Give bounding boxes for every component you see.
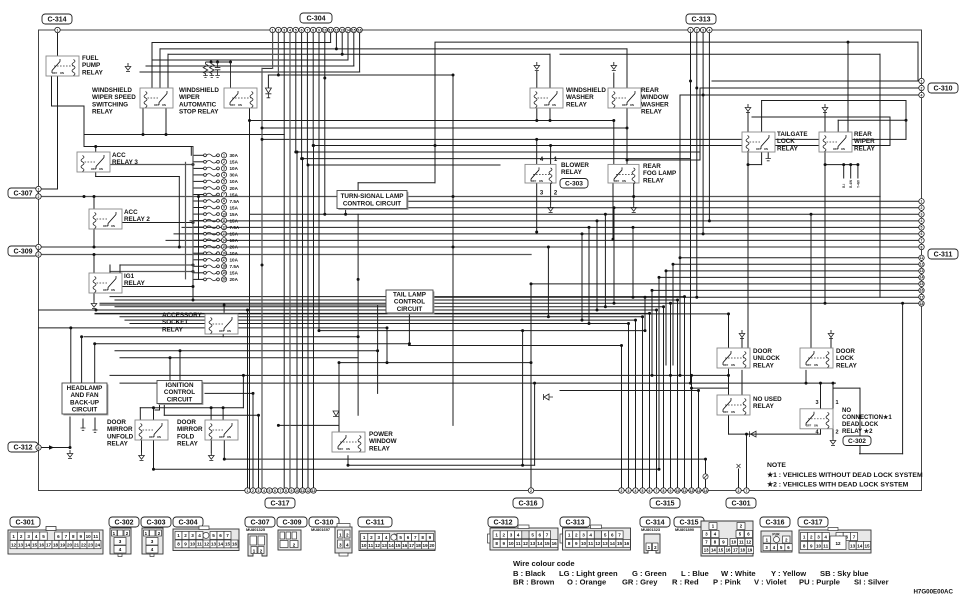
svg-text:1: 1	[921, 79, 923, 83]
svg-text:11: 11	[368, 543, 373, 548]
svg-text:1: 1	[835, 400, 838, 406]
connector table C-302	[110, 528, 131, 557]
tailgate lock relay	[742, 132, 775, 152]
accessory socket relay	[205, 314, 238, 334]
svg-text:1: 1	[272, 28, 274, 32]
svg-text:9: 9	[575, 541, 578, 546]
connector table C-312 label	[488, 517, 518, 527]
connector table C-316 label	[760, 517, 790, 527]
svg-text:6: 6	[649, 489, 651, 493]
svg-text:14: 14	[25, 543, 31, 548]
svg-text:20: 20	[429, 543, 435, 548]
svg-text:20A: 20A	[230, 186, 239, 191]
wire colour code legend	[513, 559, 889, 587]
svg-text:10A: 10A	[230, 179, 239, 184]
svg-text:4: 4	[824, 534, 827, 539]
svg-text:7: 7	[546, 533, 549, 538]
connector C-315 pins	[619, 488, 708, 493]
ground above windshield washer relay	[534, 62, 540, 71]
svg-text:3: 3	[27, 534, 30, 539]
svg-text:2: 2	[252, 489, 254, 493]
acc relay 2	[89, 209, 122, 229]
terminal stub below headlamp box 2	[93, 430, 98, 432]
svg-text:OFF: OFF	[103, 288, 109, 292]
svg-text:C-316: C-316	[765, 520, 784, 527]
diode near stop relay	[265, 88, 271, 98]
svg-text:11: 11	[588, 541, 593, 546]
svg-text:17: 17	[920, 295, 924, 299]
svg-text:3: 3	[628, 489, 630, 493]
svg-text:5: 5	[604, 533, 607, 538]
diode at power window relay	[333, 411, 339, 417]
svg-text:OFF: OFF	[806, 363, 812, 367]
svg-text:11: 11	[739, 540, 744, 545]
svg-text:2: 2	[621, 489, 623, 493]
svg-text:16: 16	[552, 541, 558, 546]
svg-text:13: 13	[340, 28, 344, 32]
door mirror fold relay	[205, 420, 238, 440]
svg-text:16: 16	[222, 251, 226, 255]
svg-text:2: 2	[370, 535, 373, 540]
svg-text:11: 11	[93, 534, 98, 539]
svg-text:4: 4	[151, 547, 154, 552]
svg-text:7.5A: 7.5A	[230, 199, 240, 204]
rear fog lamp relay	[608, 164, 639, 183]
svg-text:14: 14	[537, 541, 543, 546]
connector table C-301 label	[10, 517, 40, 527]
svg-text:15: 15	[352, 28, 356, 32]
svg-text:3: 3	[191, 533, 194, 538]
fuse 10 15A	[193, 212, 239, 217]
svg-text:9: 9	[80, 534, 83, 539]
svg-text:4: 4	[263, 489, 265, 493]
fuse 3 10A	[193, 166, 239, 171]
svg-text:8: 8	[663, 489, 665, 493]
svg-text:OFF: OFF	[219, 329, 225, 333]
svg-text:WINDSHIELDWIPERAUTOMATICSTOP R: WINDSHIELDWIPERAUTOMATICSTOP RELAY	[179, 87, 219, 116]
svg-text:5: 5	[642, 489, 644, 493]
svg-text:15: 15	[32, 543, 38, 548]
connector C-311 pins upper	[919, 199, 924, 250]
svg-text:Wire colour code: Wire colour code	[513, 559, 575, 568]
svg-text:15A: 15A	[230, 160, 239, 165]
fuse 18 7.5A	[193, 264, 240, 269]
svg-text:ON: ON	[227, 329, 231, 333]
svg-text:6: 6	[274, 489, 276, 493]
svg-text:5: 5	[399, 535, 402, 540]
svg-text:OFF: OFF	[723, 363, 729, 367]
connector C-309 label	[8, 246, 38, 256]
svg-text:9: 9	[184, 542, 187, 547]
svg-text:21: 21	[74, 543, 80, 548]
svg-text:10A: 10A	[230, 258, 239, 263]
connector table C-314	[641, 527, 661, 553]
svg-text:8: 8	[312, 28, 314, 32]
blower relay	[525, 164, 556, 183]
svg-text:1: 1	[223, 154, 225, 158]
fuse 19 15A	[193, 270, 239, 275]
svg-text:1: 1	[57, 28, 59, 32]
svg-text:4: 4	[921, 219, 923, 223]
svg-text:6: 6	[407, 535, 410, 540]
svg-text:5: 5	[42, 534, 45, 539]
ground below door mirror unfold relay	[139, 452, 145, 461]
door lock relay	[800, 348, 833, 368]
svg-text:16: 16	[358, 28, 362, 32]
svg-text:2: 2	[921, 86, 923, 90]
connector table C-310	[311, 524, 352, 557]
svg-text:12: 12	[920, 263, 924, 267]
svg-text:14: 14	[711, 548, 716, 553]
svg-text:2: 2	[921, 206, 923, 210]
svg-text:19: 19	[748, 548, 753, 553]
svg-text:OFF: OFF	[806, 424, 812, 428]
svg-text:18: 18	[740, 548, 745, 553]
svg-text:18: 18	[416, 543, 422, 548]
svg-text:12: 12	[523, 541, 529, 546]
blower relay connector C-303 label	[560, 179, 588, 189]
connector table C-304	[173, 526, 239, 551]
svg-text:8: 8	[223, 199, 225, 203]
svg-text:4: 4	[289, 28, 291, 32]
connector C-312 label	[8, 442, 38, 452]
svg-text:Y-4W: Y-4W	[856, 180, 860, 188]
ground above door lock relay	[828, 330, 834, 339]
svg-text:10: 10	[222, 212, 226, 216]
svg-text:ON: ON	[227, 435, 231, 439]
svg-text:HEADLAMPAND FANBACK-UPCIRCUIT: HEADLAMPAND FANBACK-UPCIRCUIT	[67, 385, 103, 414]
svg-text:PUR: PUR	[772, 533, 780, 537]
connector table C-312	[488, 525, 559, 550]
svg-text:1: 1	[247, 489, 249, 493]
acc relay 3	[77, 152, 110, 172]
svg-text:15: 15	[225, 542, 231, 547]
svg-text:OFF: OFF	[230, 103, 236, 107]
svg-text:ON: ON	[162, 103, 166, 107]
svg-text:13: 13	[850, 543, 856, 548]
svg-text:30A: 30A	[230, 153, 239, 158]
svg-text:OFF: OFF	[756, 147, 762, 151]
svg-text:12: 12	[204, 542, 210, 547]
svg-text:1: 1	[690, 28, 692, 32]
resistor cluster near stop relay	[203, 61, 232, 89]
fuse 4 30A	[193, 172, 239, 177]
svg-text:2: 2	[503, 533, 506, 538]
svg-text:3: 3	[283, 28, 285, 32]
svg-text:7: 7	[618, 533, 621, 538]
svg-text:3: 3	[378, 535, 381, 540]
svg-text:10A: 10A	[230, 166, 239, 171]
svg-text:MU801890: MU801890	[675, 527, 694, 532]
svg-text:13: 13	[920, 269, 924, 273]
svg-text:11: 11	[683, 489, 687, 493]
svg-text:C-303: C-303	[146, 520, 165, 527]
svg-text:8: 8	[38, 446, 40, 450]
connector C-312 pin 8	[36, 445, 41, 450]
connector C-307 pins 1,2	[36, 186, 41, 199]
tail lamp control circuit box	[386, 290, 434, 314]
connector C-313 label	[686, 14, 716, 24]
svg-text:17: 17	[409, 543, 415, 548]
svg-text:10: 10	[816, 543, 822, 548]
svg-text:10: 10	[676, 489, 680, 493]
connector table C-307 label	[245, 517, 275, 527]
svg-text:12: 12	[335, 28, 339, 32]
svg-text:14: 14	[704, 489, 708, 493]
door unlock relay	[717, 348, 750, 368]
svg-text:10A: 10A	[230, 238, 239, 243]
fuse 14 10A	[193, 238, 239, 243]
svg-text:4: 4	[223, 173, 225, 177]
svg-text:ON: ON	[814, 424, 818, 428]
rear window washer relay	[608, 88, 641, 108]
dead lock relay connector C-302 label	[843, 436, 871, 446]
svg-text:15: 15	[222, 245, 226, 249]
svg-text:18: 18	[920, 302, 924, 306]
svg-text:ON: ON	[731, 410, 735, 414]
connector C-309 pins 1,2	[36, 244, 41, 257]
svg-text:24: 24	[95, 543, 101, 548]
arrow at C-312	[49, 445, 54, 450]
svg-text:12: 12	[835, 541, 841, 546]
svg-text:16: 16	[726, 548, 731, 553]
svg-text:B-4W: B-4W	[849, 180, 853, 188]
rear wiper relay	[819, 132, 852, 152]
svg-text:10: 10	[295, 489, 299, 493]
svg-text:2: 2	[696, 28, 698, 32]
svg-text:10: 10	[86, 534, 92, 539]
svg-text:OFF: OFF	[531, 179, 537, 183]
svg-text:1: 1	[495, 533, 498, 538]
ground above door unlock relay	[739, 330, 745, 339]
svg-text:14: 14	[920, 276, 924, 280]
svg-text:14: 14	[218, 542, 224, 547]
svg-text:20: 20	[222, 278, 226, 282]
svg-text:9: 9	[291, 489, 293, 493]
connector C-310 pins 1,2,4	[919, 78, 924, 97]
connector table C-314 label	[640, 517, 670, 527]
connector C-301 pins	[736, 488, 749, 493]
svg-text:1: 1	[568, 533, 571, 538]
svg-text:4: 4	[119, 547, 122, 552]
connector table C-303 label	[141, 517, 171, 527]
connector C-316 pin 2	[528, 488, 533, 493]
svg-text:6: 6	[539, 533, 542, 538]
svg-text:14: 14	[610, 541, 616, 546]
svg-text:10: 10	[323, 28, 327, 32]
svg-text:2: 2	[835, 430, 838, 436]
svg-text:TAIL LAMPCONTROLCIRCUIT: TAIL LAMPCONTROLCIRCUIT	[393, 292, 426, 313]
connector C-304 pins 1-16	[270, 27, 362, 32]
svg-text:2: 2	[20, 534, 23, 539]
svg-text:11: 11	[920, 256, 924, 260]
svg-text:ON: ON	[841, 147, 845, 151]
svg-text:1: 1	[363, 535, 366, 540]
connector table C-315	[675, 521, 754, 556]
svg-text:2: 2	[184, 533, 187, 538]
rear wiper wire labels	[842, 180, 860, 188]
fuse feed bus wires	[186, 147, 194, 280]
svg-text:7: 7	[306, 28, 308, 32]
svg-text:13: 13	[704, 548, 709, 553]
svg-text:C-302: C-302	[114, 520, 133, 527]
svg-text:ON: ON	[238, 103, 242, 107]
svg-text:C-313: C-313	[691, 17, 710, 24]
svg-text:5: 5	[531, 533, 534, 538]
svg-text:1: 1	[921, 200, 923, 204]
svg-text:5: 5	[223, 180, 225, 184]
svg-text:7: 7	[853, 534, 856, 539]
svg-text:10: 10	[190, 542, 196, 547]
svg-text:5: 5	[921, 226, 923, 230]
svg-text:2: 2	[223, 160, 225, 164]
svg-text:ON: ON	[552, 103, 556, 107]
fuse 16 10A	[193, 251, 239, 256]
svg-text:ON: ON	[157, 435, 161, 439]
svg-text:8: 8	[921, 245, 923, 249]
svg-text:9: 9	[223, 206, 225, 210]
svg-text:15: 15	[544, 541, 550, 546]
svg-text:12: 12	[11, 543, 17, 548]
svg-text:12: 12	[595, 541, 601, 546]
fuse 20 20A	[193, 277, 239, 282]
svg-text:C-315: C-315	[655, 501, 674, 508]
svg-text:C-317: C-317	[270, 501, 289, 508]
svg-text:18: 18	[222, 265, 226, 269]
svg-text:5: 5	[269, 489, 271, 493]
svg-text:1: 1	[177, 533, 180, 538]
svg-text:2: 2	[38, 253, 40, 257]
svg-text:15A: 15A	[230, 212, 239, 217]
svg-text:ON: ON	[111, 288, 115, 292]
svg-text:19: 19	[222, 271, 226, 275]
svg-text:C-310: C-310	[314, 520, 333, 527]
svg-text:MU801325: MU801325	[246, 527, 266, 532]
svg-text:15: 15	[920, 282, 924, 286]
svg-text:C-317: C-317	[803, 520, 822, 527]
svg-text:3: 3	[151, 539, 154, 544]
svg-text:15A: 15A	[230, 232, 239, 237]
svg-text:7: 7	[414, 535, 417, 540]
svg-text:OFF: OFF	[219, 435, 225, 439]
connector C-310 label	[928, 83, 958, 93]
svg-text:11: 11	[516, 541, 521, 546]
svg-text:NOTE: NOTE	[767, 462, 786, 469]
svg-text:12: 12	[690, 489, 694, 493]
svg-text:2: 2	[575, 533, 578, 538]
svg-text:12: 12	[306, 489, 310, 493]
svg-text:PU : Purple: PU : Purple	[799, 578, 840, 587]
svg-text:ON: ON	[814, 363, 818, 367]
svg-text:3: 3	[258, 489, 260, 493]
svg-text:8: 8	[568, 541, 571, 546]
ground above rear window washer relay	[611, 62, 617, 71]
ground below C-312 junction	[67, 450, 73, 459]
door mirror unfold relay	[135, 420, 168, 440]
svg-text:1: 1	[38, 187, 40, 191]
svg-text:ON: ON	[111, 224, 115, 228]
dead lock relay pin numbers	[815, 400, 838, 436]
connector C-313 pins 1-4	[688, 27, 712, 32]
svg-text:15: 15	[395, 543, 401, 548]
svg-text:P : Pink: P : Pink	[713, 578, 741, 587]
connector table C-302 label	[109, 517, 139, 527]
frame border	[39, 30, 922, 491]
svg-text:OFF: OFF	[622, 103, 628, 107]
svg-text:C-312: C-312	[493, 520, 512, 527]
svg-text:16: 16	[39, 543, 45, 548]
connector table C-310 label	[309, 517, 339, 527]
svg-text:6: 6	[301, 28, 303, 32]
svg-text:4: 4	[35, 534, 38, 539]
svg-text:C-301: C-301	[731, 501, 750, 508]
svg-text:6: 6	[57, 534, 60, 539]
svg-text:16: 16	[232, 542, 238, 547]
svg-text:TURN-SIGNAL LAMPCONTROL CIRCUI: TURN-SIGNAL LAMPCONTROL CIRCUIT	[341, 193, 404, 207]
svg-text:14: 14	[857, 543, 863, 548]
svg-text:14: 14	[222, 238, 226, 242]
svg-text:IGNITIONCONTROLCIRCUIT: IGNITIONCONTROLCIRCUIT	[164, 382, 195, 403]
fuse 8 7.5A	[193, 198, 240, 203]
svg-text:13: 13	[697, 489, 701, 493]
svg-text:10: 10	[731, 540, 736, 545]
svg-text:13: 13	[211, 542, 217, 547]
svg-text:ON: ON	[539, 179, 543, 183]
svg-text:OFF: OFF	[723, 410, 729, 414]
ground below blower relay	[548, 204, 554, 213]
svg-text:1: 1	[803, 534, 806, 539]
connector table C-317 label	[798, 517, 828, 527]
svg-text:13: 13	[382, 543, 388, 548]
svg-text:7.5A: 7.5A	[230, 264, 240, 269]
svg-text:6: 6	[223, 186, 225, 190]
svg-text:1: 1	[12, 534, 15, 539]
fuse 6 20A	[193, 185, 239, 190]
svg-text:14: 14	[346, 28, 350, 32]
svg-text:OFF: OFF	[833, 147, 839, 151]
svg-text:10: 10	[508, 541, 514, 546]
svg-text:C-311: C-311	[366, 520, 385, 527]
connector table C-304 label	[173, 517, 203, 527]
svg-text:17: 17	[733, 548, 738, 553]
svg-text:ON: ON	[630, 103, 634, 107]
svg-text:C-311: C-311	[934, 252, 953, 259]
connector table C-307	[246, 527, 267, 556]
ground near wiper speed relay	[125, 63, 131, 72]
svg-text:11: 11	[301, 489, 305, 493]
svg-text:MU801697: MU801697	[311, 527, 330, 532]
svg-text:3: 3	[223, 167, 225, 171]
svg-text:13: 13	[312, 489, 316, 493]
svg-text:B-I: B-I	[842, 184, 846, 188]
connector C-311 pins lower	[919, 255, 924, 306]
turn-signal lamp control circuit box	[337, 191, 408, 210]
svg-text:C-314: C-314	[645, 520, 664, 527]
svg-text:14: 14	[389, 543, 395, 548]
svg-text:13: 13	[222, 232, 226, 236]
svg-text:2: 2	[38, 195, 40, 199]
svg-text:C-313: C-313	[565, 520, 584, 527]
svg-text:4: 4	[708, 28, 710, 32]
svg-text:ON: ON	[622, 179, 626, 183]
svg-text:C-315: C-315	[679, 520, 698, 527]
connector C-307 label	[8, 188, 38, 198]
svg-text:2: 2	[530, 489, 532, 493]
svg-text:10: 10	[581, 541, 587, 546]
svg-text:C-307: C-307	[250, 520, 269, 527]
svg-text:C-316: C-316	[518, 501, 537, 508]
terminal stub below headlamp box 1	[81, 428, 86, 430]
